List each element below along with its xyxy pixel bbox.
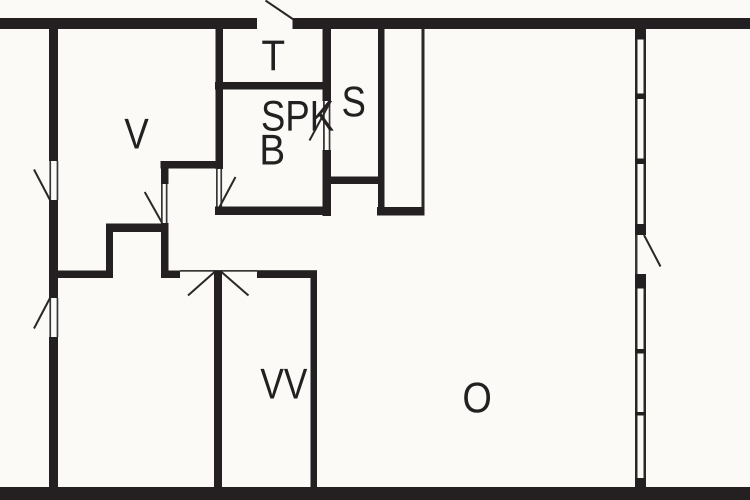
line: closet2 front thin line	[422, 29, 425, 207]
wall: closet2 bottom	[377, 207, 425, 216]
door: left upper door frame lines	[49, 161, 51, 200]
label: room O	[464, 382, 490, 412]
wall: T bottom	[215, 82, 331, 90]
label: room SPK	[263, 101, 334, 131]
wall: top exterior, right of entrance	[293, 18, 750, 29]
door: hall double door header line	[180, 270, 257, 272]
wall: VV top	[257, 270, 317, 278]
door: hall west leaf swing	[188, 272, 215, 296]
wall: S east	[378, 29, 385, 216]
door: V door frame lines	[161, 184, 163, 223]
wall: T/S divider upper	[323, 29, 332, 101]
wall: window wall bottom chunk	[635, 478, 646, 487]
wall: V/T divider	[216, 29, 224, 169]
label: room B	[263, 135, 284, 165]
door: left lower door frame lines	[49, 298, 51, 337]
wall: bottom exterior	[0, 487, 750, 500]
wall: B bottom	[215, 207, 331, 216]
label: room T	[262, 41, 284, 71]
wall: top exterior, left of entrance	[0, 18, 257, 29]
wall: chunk below terrace door	[635, 274, 646, 289]
wall: T/S divider lower	[323, 150, 332, 216]
wall: closet top	[106, 224, 169, 233]
window: mullion tick 4	[635, 412, 646, 416]
wall: room divider, VV west	[214, 271, 222, 487]
door: B door frame lines	[216, 169, 218, 207]
door: terrace door frame line	[635, 235, 638, 274]
wall: window wall top chunk	[635, 29, 646, 40]
window: right wall inner glass line lower	[644, 274, 647, 478]
wall: closet bottom stub	[161, 271, 180, 279]
window: mullion tick 2	[635, 159, 646, 165]
wall: left exterior, upper segment	[49, 29, 58, 161]
door: terrace door swing leaf	[644, 235, 661, 267]
wall: V door jamb	[161, 169, 169, 185]
door: S door frame line	[323, 101, 325, 150]
window: right wall inner glass line upper	[644, 40, 647, 236]
wall: S bottom	[325, 177, 385, 185]
wall: hall top	[161, 161, 223, 169]
door: S door swing leaf	[310, 102, 331, 141]
door: left upper door swing leaf	[34, 170, 50, 201]
wall: left exterior, middle segment	[49, 200, 58, 298]
wall: chunk above terrace door	[635, 224, 646, 235]
wall: hall bottom west	[57, 271, 112, 279]
window: mullion tick 3	[635, 349, 646, 354]
door: entrance swing leaf	[266, 1, 294, 20]
door: V door swing leaf	[145, 192, 162, 223]
wall: closet left side	[106, 224, 113, 279]
window: right wall outer glass line	[635, 40, 638, 479]
wall: left exterior, lower segment	[49, 337, 58, 487]
wall: closet right side / lower jamb	[161, 223, 169, 278]
window: mullion tick 1	[635, 94, 646, 100]
label: room V	[125, 119, 149, 149]
label: room S	[343, 86, 364, 116]
wall: VV east	[311, 278, 318, 487]
door: left lower door swing leaf	[34, 298, 50, 329]
label: room VV	[261, 369, 308, 399]
door: B door swing leaf	[220, 177, 236, 207]
door: hall east leaf swing	[222, 272, 249, 296]
